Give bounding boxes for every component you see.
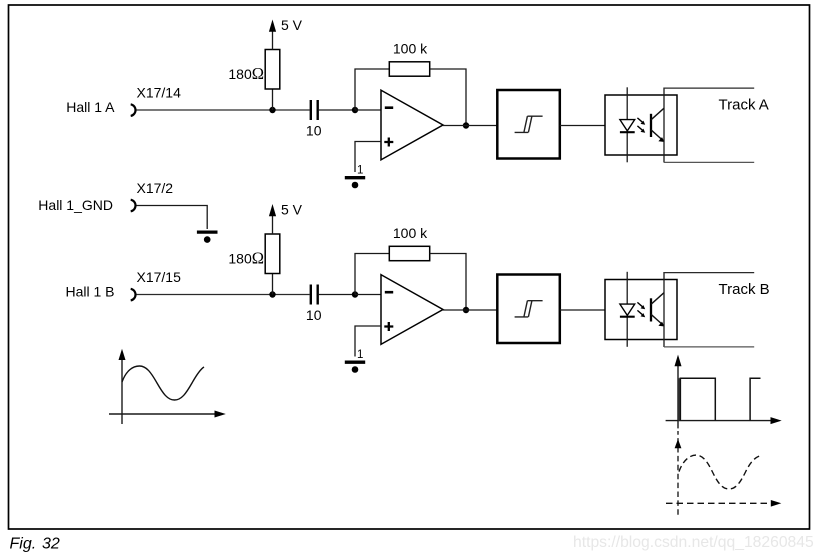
schmitt trigger U2 hysteresis symbol xyxy=(515,116,543,132)
connector X17/14 pin symbol xyxy=(131,104,136,116)
resistor R2 100 k feedback xyxy=(389,62,429,76)
wire Track B upper rail xyxy=(664,272,754,274)
svg-text:X17/2: X17/2 xyxy=(137,180,174,196)
node junction dot at op-amp input xyxy=(352,291,358,297)
svg-text:10: 10 xyxy=(306,123,322,139)
power 5V arrow xyxy=(269,20,276,32)
optocoupler U3 LED triangle xyxy=(620,120,635,131)
wire op-amp output to schmitt trigger xyxy=(443,125,497,127)
optocoupler U6 light arrow 1 xyxy=(637,302,642,306)
wire R3 bottom to node xyxy=(272,274,274,295)
capacitor C1 plate right xyxy=(317,100,319,120)
dashed graph axis vertical xyxy=(677,431,679,515)
wire feedback up from inverting node xyxy=(355,254,389,295)
svg-text:Track A: Track A xyxy=(719,97,769,114)
wire op-amp non-inverting input to ground xyxy=(355,326,381,357)
wire R1 bottom to node xyxy=(272,89,274,110)
phototransistor Q1 emitter with arrow xyxy=(651,130,662,140)
resistor R3 180 ohm xyxy=(265,234,280,274)
wire output bracket vertical xyxy=(663,272,665,347)
node output junction dot xyxy=(463,122,469,128)
wire node to op-amp inverting input xyxy=(355,294,381,296)
svg-text:180Ω: 180Ω xyxy=(228,248,264,267)
optocoupler U3 LED vertical wire xyxy=(626,87,628,162)
svg-text:X17/14: X17/14 xyxy=(137,85,182,101)
schmitt trigger U2 box xyxy=(497,90,560,159)
wire R3 top to 5V xyxy=(272,216,274,235)
wire schmitt trigger to optocoupler xyxy=(560,125,605,127)
wire op-amp output to schmitt trigger xyxy=(443,309,497,311)
wire node to op-amp inverting input xyxy=(355,109,381,111)
svg-text:1: 1 xyxy=(357,165,363,177)
wire Track B lower rail xyxy=(664,346,754,348)
node junction dot at op-amp input xyxy=(352,107,358,113)
svg-text:10: 10 xyxy=(306,307,322,323)
wire Track A lower rail xyxy=(664,161,754,163)
optocoupler U3 light arrow 2 xyxy=(637,126,642,130)
optocoupler U6 LED triangle xyxy=(620,304,635,315)
optocoupler U6 LED vertical wire xyxy=(626,272,628,347)
svg-text:100 k: 100 k xyxy=(393,225,428,241)
optocoupler U6 light arrow 2 xyxy=(637,310,642,314)
wire C2 to inverting node xyxy=(319,294,355,296)
svg-text:Hall 1 B: Hall 1 B xyxy=(65,284,114,300)
wire output bracket vertical xyxy=(663,88,665,163)
phototransistor Q2 collector xyxy=(651,293,664,305)
wire schmitt trigger to optocoupler xyxy=(560,309,605,311)
wire Hall 1 A input xyxy=(137,109,310,111)
node output junction dot xyxy=(463,307,469,313)
svg-text:Hall 1 A: Hall 1 A xyxy=(66,99,115,115)
op-amp U4 plus sign xyxy=(384,322,393,331)
phototransistor Q2 base bar xyxy=(650,298,652,321)
wire R1 top to 5V xyxy=(272,31,274,50)
node junction dot at R3 xyxy=(269,291,275,297)
svg-text:Hall 1_GND: Hall 1_GND xyxy=(38,197,113,213)
graph axis vertical (input waveform) xyxy=(121,357,123,425)
graph axis horizontal (square wave) xyxy=(666,420,772,422)
svg-text:180Ω: 180Ω xyxy=(228,64,264,83)
graph axis vertical (square wave) xyxy=(677,363,679,428)
svg-text:Track B: Track B xyxy=(719,281,770,298)
optocoupler U6 LED cathode bar xyxy=(620,316,635,318)
svg-text:5 V: 5 V xyxy=(281,17,303,33)
phototransistor Q1 base bar xyxy=(650,114,652,137)
capacitor C1 plate left xyxy=(310,100,312,120)
connector X17/2 pin symbol xyxy=(131,200,136,212)
wire Hall 1_GND to ground xyxy=(137,206,208,230)
svg-text:5 V: 5 V xyxy=(281,202,303,218)
wire C1 to inverting node xyxy=(319,109,355,111)
graph axis horizontal (input waveform) xyxy=(109,413,216,415)
dashed graph axis horizontal xyxy=(666,502,770,504)
svg-text:100 k: 100 k xyxy=(393,41,428,57)
svg-text:1: 1 xyxy=(357,349,363,361)
op-amp U4 minus sign xyxy=(385,291,393,294)
wire feedback up from inverting node xyxy=(355,69,389,110)
ground bar at op-amp xyxy=(345,176,365,179)
optocoupler U3 light arrow 1 xyxy=(637,118,642,122)
wire Hall 1 B input xyxy=(137,294,310,296)
op-amp U1 minus sign xyxy=(385,106,393,109)
resistor R4 100 k feedback xyxy=(389,246,429,260)
schmitt trigger U5 box xyxy=(497,275,560,344)
op-amp U1 xyxy=(381,90,443,160)
wire op-amp non-inverting input to ground xyxy=(355,142,381,173)
node junction dot at R1 xyxy=(269,107,275,113)
wire feedback right to output xyxy=(430,69,466,126)
svg-text:Fig. 32: Fig. 32 xyxy=(10,536,60,553)
capacitor C2 plate right xyxy=(317,285,319,305)
ground dot at op-amp xyxy=(352,366,359,373)
schmitt trigger U5 hysteresis symbol xyxy=(515,301,543,317)
ground dot at op-amp xyxy=(352,182,359,189)
ground bar at op-amp xyxy=(345,361,365,364)
optocoupler U3 box xyxy=(605,95,677,155)
ground dot Hall GND xyxy=(204,236,211,243)
connector X17/15 pin symbol xyxy=(131,289,136,301)
square wave pulse 1 xyxy=(678,378,681,420)
dashed sine curve xyxy=(679,455,760,489)
capacitor C2 plate left xyxy=(310,285,312,305)
resistor R1 180 ohm xyxy=(265,50,280,90)
square wave pulse 2 xyxy=(750,378,760,420)
svg-text:X17/15: X17/15 xyxy=(137,269,182,285)
wire Track A upper rail xyxy=(664,87,754,89)
optocoupler U6 box xyxy=(605,280,677,340)
sine curve input waveform xyxy=(122,366,204,400)
wire feedback right to output xyxy=(430,254,466,311)
phototransistor Q2 emitter with arrow xyxy=(651,314,662,324)
op-amp U1 plus sign xyxy=(384,138,393,147)
svg-text:https://blog.csdn.net/qq_18260: https://blog.csdn.net/qq_18260845 xyxy=(573,534,814,551)
optocoupler U3 LED cathode bar xyxy=(620,131,635,133)
phototransistor Q1 collector xyxy=(651,108,664,120)
ground bar Hall GND xyxy=(197,230,218,233)
op-amp U4 xyxy=(381,275,443,345)
power 5V arrow xyxy=(269,204,276,216)
